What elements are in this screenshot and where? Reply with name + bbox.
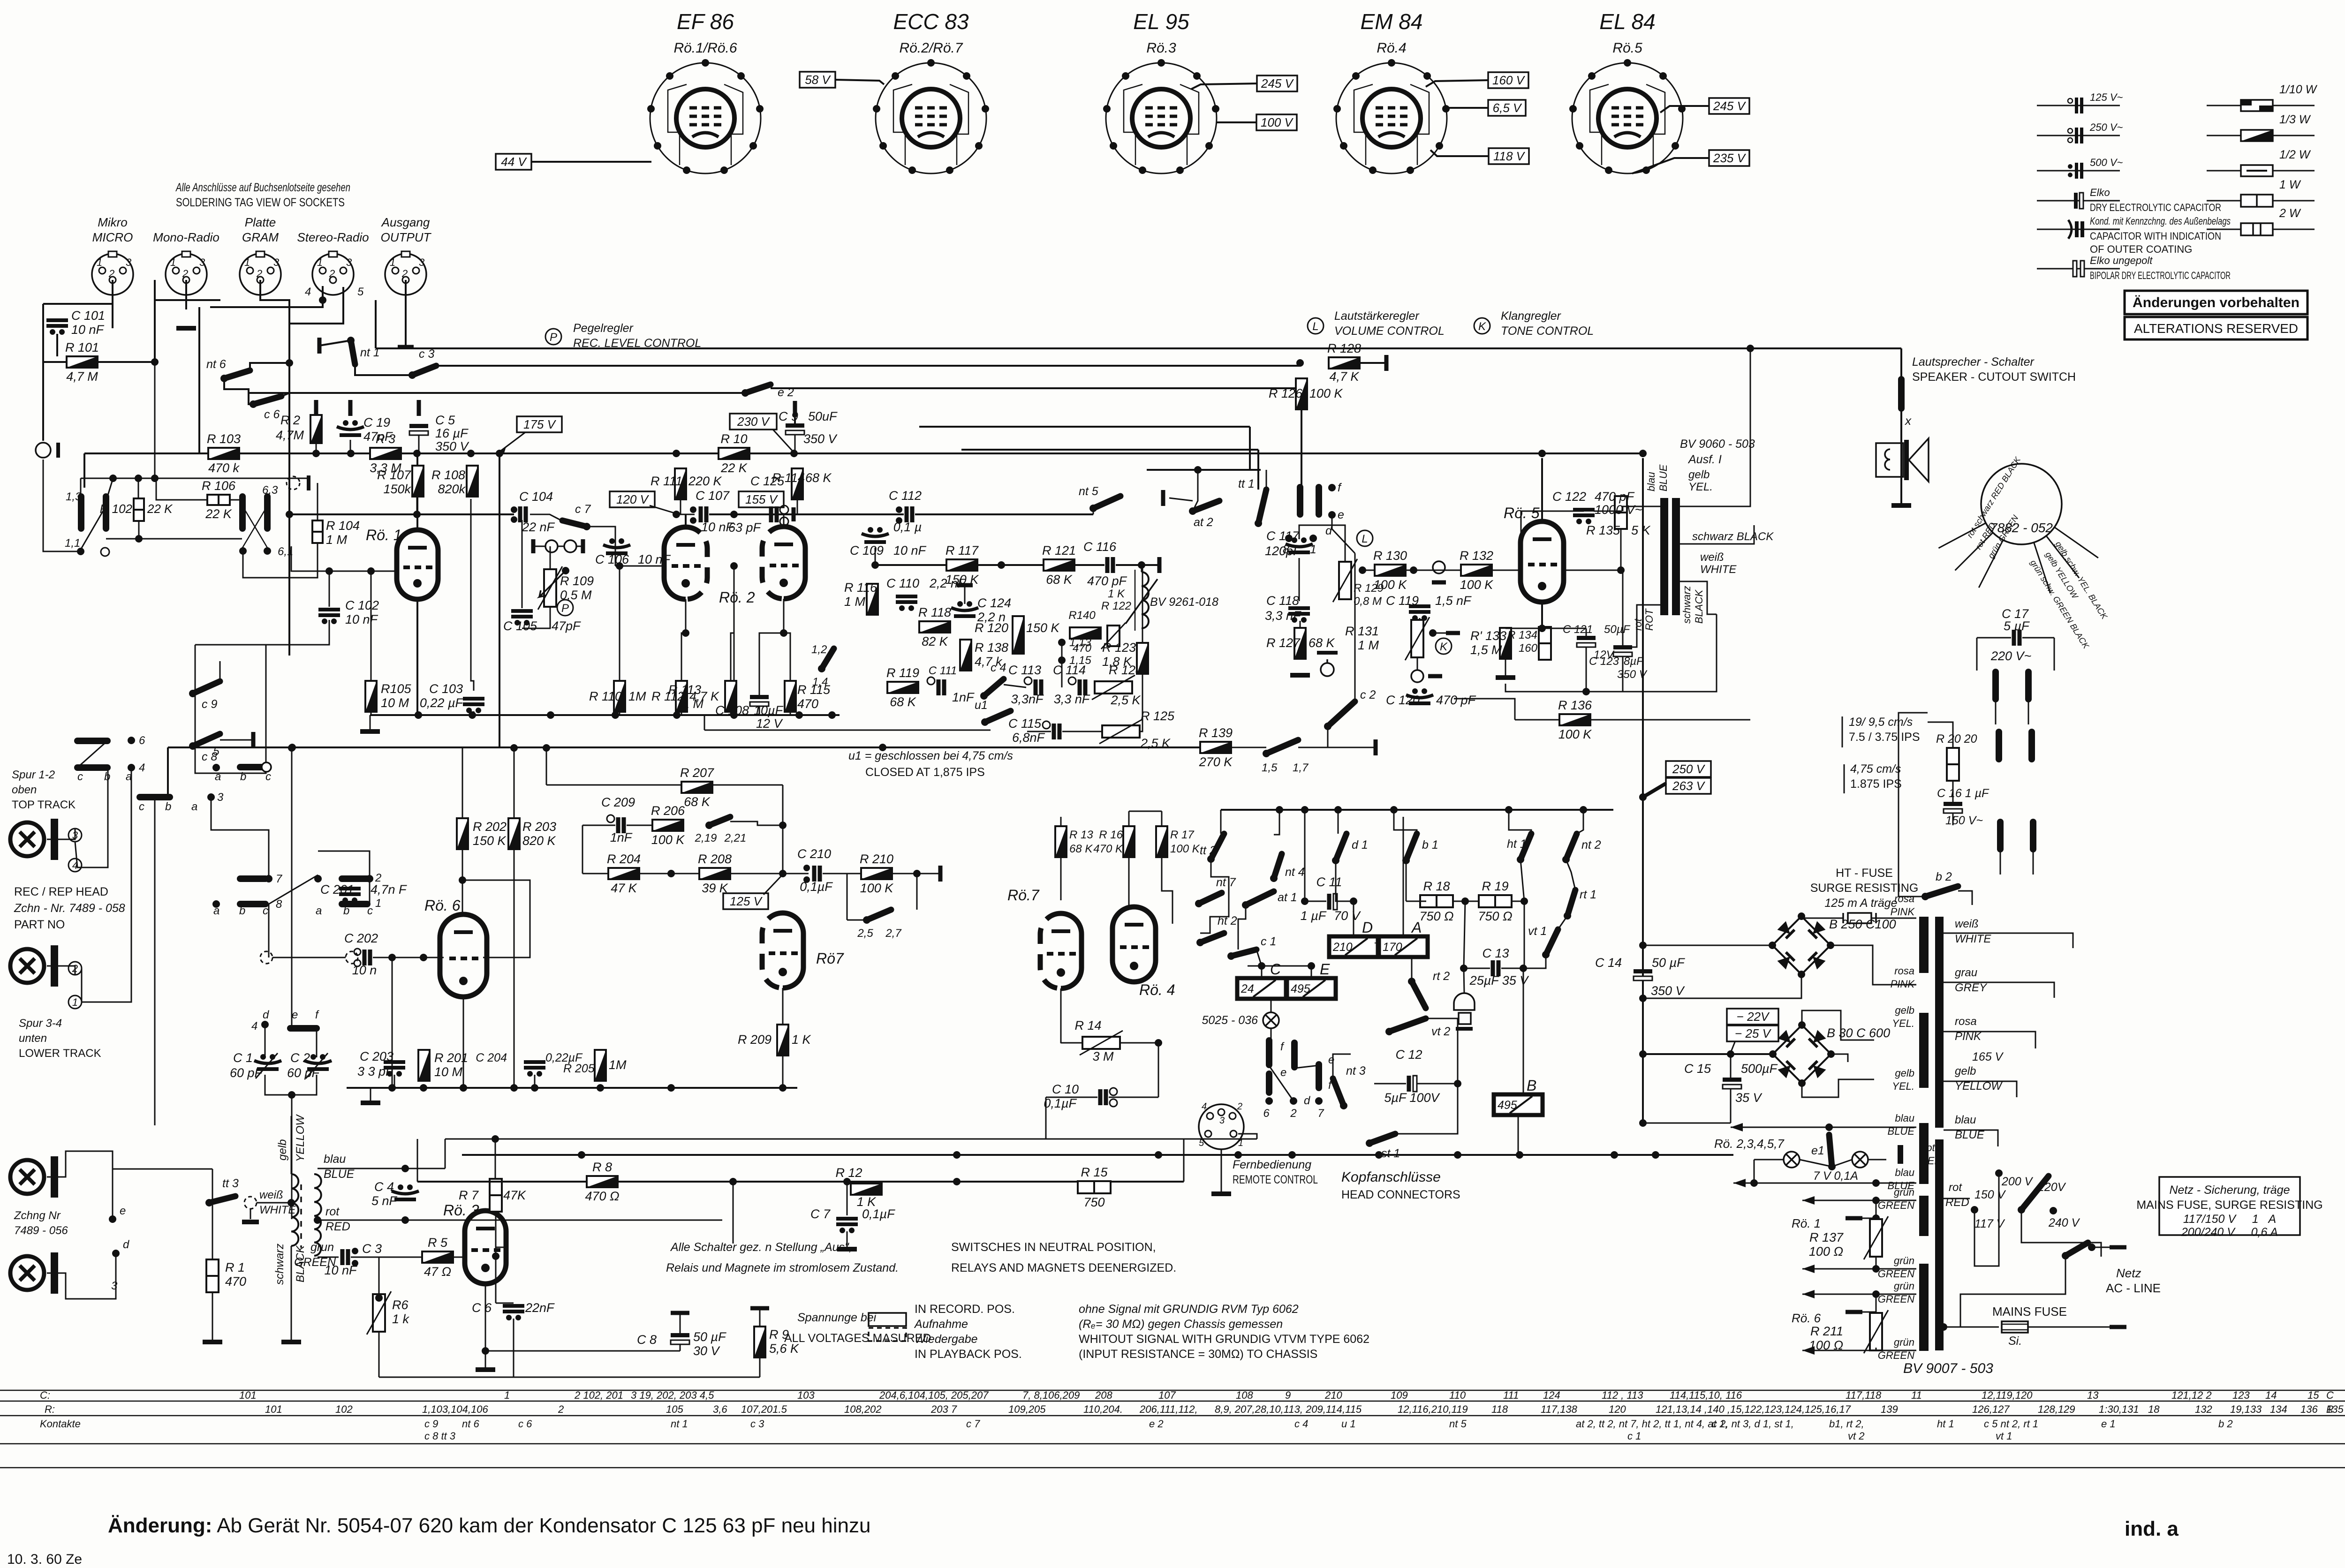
service block wire gelb schw. [2054, 527, 2098, 558]
wire speaker drop [1900, 348, 1902, 379]
capacitor C19 [337, 420, 364, 435]
svg-text:Platte: Platte [245, 215, 276, 229]
wire R207 right down [782, 785, 784, 874]
svg-text:EM 84: EM 84 [1361, 9, 1423, 34]
svg-text:REMOTE CONTROL: REMOTE CONTROL [1233, 1173, 1318, 1186]
junction head bus [1234, 1151, 1242, 1159]
wire 58V to ECC83 [835, 80, 884, 84]
junction R130 right [1410, 566, 1417, 574]
wire Ro7b down [1060, 988, 1062, 1043]
wire 1557 left [704, 715, 705, 730]
matrix bar r5 [240, 875, 265, 882]
svg-text:e 1: e 1 [2101, 1418, 2116, 1430]
svg-text:1/10 W: 1/10 W [2279, 83, 2318, 96]
svg-text:R 113: R 113 [668, 683, 701, 697]
svg-text:124: 124 [1543, 1389, 1560, 1401]
svg-text:BLACK: BLACK [1693, 589, 1705, 624]
wire blau tap [318, 1168, 445, 1169]
svg-text:120: 120 [1609, 1403, 1626, 1415]
capacitor C115 [1054, 724, 1059, 739]
junction rot left [314, 1216, 321, 1224]
wire C9 top [794, 412, 796, 423]
svg-text:204,6,104,105, 205,207: 204,6,104,105, 205,207 [879, 1389, 989, 1401]
svg-text:3: 3 [1219, 1116, 1225, 1126]
legend electrolytic capacitor [2074, 193, 2083, 209]
junction R19 right [1520, 897, 1528, 905]
svg-text:114,115,10, 116: 114,115,10, 116 [1670, 1389, 1742, 1401]
capacitor C121 [1577, 636, 1596, 647]
wire C108 top [759, 633, 784, 695]
svg-text:25µF 35 V: 25µF 35 V [1469, 973, 1530, 988]
wire C103 down [473, 711, 475, 715]
svg-text:C 4: C 4 [374, 1180, 394, 1194]
svg-text:gelb: gelb [1955, 1065, 1976, 1078]
svg-text:100 K: 100 K [860, 881, 894, 895]
terminal R131b [1428, 674, 1442, 678]
terminal mains b [2110, 1325, 2126, 1329]
coil BV9261-018 [1142, 572, 1149, 628]
svg-text:126,127: 126,127 [1972, 1403, 2010, 1415]
terminal R137 [1846, 1216, 1862, 1221]
junction R8 bus c [953, 1178, 961, 1185]
wire rt1 down [1558, 916, 1567, 929]
wire lamp mid2 [1832, 1160, 1852, 1167]
service block wire rot [1955, 533, 1993, 571]
voltage box 155V [739, 491, 784, 507]
svg-text:vt 2: vt 2 [1431, 1025, 1450, 1038]
terminal bus1594 [1374, 739, 1378, 755]
svg-text:vt 2: vt 2 [1848, 1430, 1864, 1442]
svg-text:TONE CONTROL: TONE CONTROL [1501, 324, 1594, 338]
svg-text:grau: grau [1955, 966, 1977, 979]
svg-text:R 137: R 137 [1809, 1230, 1844, 1244]
svg-text:at 1: at 1 [1278, 891, 1297, 904]
svg-text:1 M: 1 M [326, 533, 348, 547]
wire R102 bot [138, 521, 140, 539]
svg-text:st 1: st 1 [1381, 1147, 1400, 1160]
junction matrix top [1390, 806, 1398, 814]
svg-text:270 K: 270 K [1199, 755, 1233, 769]
wire trim row2 [558, 546, 564, 547]
svg-text:R 16: R 16 [1099, 829, 1123, 841]
svg-text:Rö.1/Rö.6: Rö.1/Rö.6 [673, 40, 737, 56]
gnd drop stage2 [370, 1088, 371, 1101]
tube Rö.6 [440, 914, 487, 997]
wire C101 down [56, 334, 58, 356]
resistor R15 [1078, 1181, 1111, 1193]
legend capacitor outer coating [2068, 220, 2084, 239]
junction R8 bus b [843, 1178, 851, 1185]
potentiometer R125 [1099, 719, 1142, 744]
wire R7 down [495, 1212, 497, 1256]
wire R107 drop [416, 497, 418, 514]
legend bipolar electrolytic [2073, 261, 2084, 277]
svg-text:R 206: R 206 [651, 804, 685, 818]
svg-text:1 K: 1 K [792, 1033, 811, 1047]
svg-text:3: 3 [111, 1280, 118, 1292]
transformer primary coil [291, 1174, 298, 1246]
svg-text:0,22 µF: 0,22 µF [420, 696, 464, 710]
svg-text:Elko ungepolt: Elko ungepolt [2090, 255, 2153, 266]
svg-text:0,1µF: 0,1µF [1044, 1096, 1077, 1110]
C202 right [373, 957, 444, 958]
svg-text:150 K: 150 K [1026, 621, 1060, 635]
contact field bus low [106, 538, 242, 540]
svg-text:Rö.5: Rö.5 [1612, 40, 1642, 56]
service block wire gelb [2046, 536, 2079, 578]
service contact 1a [1992, 672, 1999, 699]
junction C202 a [388, 954, 396, 961]
fuse HT symbol [1843, 913, 1876, 923]
solenoid symbol [1454, 993, 1475, 1029]
table line 4 [0, 1443, 2345, 1445]
svg-text:R 130: R 130 [1373, 549, 1407, 563]
wire R14 right [1120, 1042, 1158, 1044]
resistor R114 [792, 468, 803, 499]
capacitor C120 [1406, 688, 1433, 703]
svg-text:208: 208 [1095, 1389, 1112, 1401]
Ro6 out wire [462, 880, 530, 957]
svg-text:c 8 tt 3: c 8 tt 3 [424, 1430, 456, 1442]
wire E top [1311, 966, 1312, 978]
svg-text:d: d [123, 1238, 129, 1251]
svg-text:e: e [1280, 1066, 1286, 1079]
wire C121 bot [1586, 647, 1587, 692]
bus y1594 [168, 746, 1201, 748]
wire R105 top [371, 571, 372, 681]
wire R131 term [1433, 633, 1447, 634]
svg-text:R 10: R 10 [720, 432, 747, 446]
svg-text:Ausgang: Ausgang [381, 215, 430, 229]
wire C11 right [1338, 901, 1354, 902]
wire Ro5 top bus [1521, 511, 1584, 570]
lamp 5025-036 [1263, 1012, 1279, 1028]
junction stage2 rail [420, 1084, 427, 1092]
svg-text:101: 101 [239, 1389, 257, 1401]
svg-text:19,133: 19,133 [2230, 1403, 2262, 1415]
svg-text:C 3: C 3 [362, 1242, 382, 1256]
svg-text:220 K: 220 K [688, 474, 722, 488]
matrix bar r3 [140, 794, 170, 800]
svg-text:Rö. 2: Rö. 2 [719, 589, 755, 606]
svg-text:rt 2: rt 2 [1433, 970, 1450, 983]
junction head bus [1611, 1151, 1618, 1159]
transformer BV9060 core left [1660, 498, 1680, 615]
svg-text:C 119: C 119 [1386, 594, 1419, 608]
arrowhead 175V [500, 447, 506, 453]
wire C15 rail [1643, 1123, 1731, 1124]
head rec/rep top [10, 819, 58, 860]
stage2 ground rail [347, 1087, 797, 1089]
svg-text:OUTPUT: OUTPUT [381, 230, 432, 244]
wire R106 right [230, 499, 242, 501]
junction bus3 [496, 450, 503, 457]
mains fuse info box [2136, 1177, 2322, 1239]
capacitor C12 style [1413, 1076, 1417, 1092]
switch nt2 [1562, 834, 1577, 863]
circled 2 [68, 962, 82, 975]
service contact 3b [2030, 822, 2036, 849]
svg-text:Mono-Radio: Mono-Radio [153, 230, 219, 244]
contact field bus top [81, 478, 308, 479]
c8 col [268, 904, 270, 957]
resistor R17 [1156, 826, 1167, 857]
capacitor C17 [2014, 630, 2020, 646]
wire c8 to term [220, 739, 253, 741]
resistor R134 [1539, 627, 1551, 660]
wire R137 lead [1854, 1218, 1876, 1219]
switch diag [269, 875, 318, 904]
svg-text:1 M: 1 M [682, 697, 704, 711]
wire tap red [1944, 1198, 1970, 1199]
contact bar 13b [103, 497, 109, 528]
switch b1 [1402, 834, 1417, 864]
resistor R115 [785, 681, 796, 712]
junction C12 right [1454, 1080, 1461, 1087]
resistor R19 [1479, 895, 1512, 907]
rail Ro3 bottom [379, 1377, 760, 1378]
svg-text:13: 13 [2087, 1389, 2099, 1401]
capacitor C15 [1723, 1078, 1741, 1089]
wire bridge2 top [1802, 1010, 1874, 1040]
svg-text:10. 3. 60 Ze: 10. 3. 60 Ze [7, 1552, 82, 1567]
svg-text:125 m A träge: 125 m A träge [1824, 897, 1897, 910]
contact bar t3 [1316, 1064, 1322, 1088]
svg-text:grün: grün [1894, 1336, 1914, 1348]
wire C17 left [1977, 637, 2011, 639]
contact 1,13 [1058, 639, 1066, 646]
svg-text:6: 6 [1263, 1107, 1270, 1120]
svg-text:R 210: R 210 [860, 852, 893, 866]
wire remote gnd [1221, 1149, 1222, 1192]
power transformer core right [1935, 917, 1944, 1350]
svg-text:68 K: 68 K [1046, 573, 1073, 587]
bus B6 [1147, 469, 1261, 471]
svg-text:136: 136 [2300, 1403, 2318, 1415]
wire 175V arrow [500, 432, 525, 451]
svg-text:BLUE: BLUE [324, 1168, 355, 1181]
svg-text:3: 3 [273, 256, 280, 268]
circled 4 [68, 859, 82, 872]
row R117 [875, 564, 946, 566]
svg-text:R 14: R 14 [1074, 1018, 1101, 1033]
svg-text:C:: C: [40, 1389, 50, 1401]
svg-text:rot: rot [1949, 1181, 1962, 1194]
wire 113 115 [1061, 642, 1063, 687]
terminal C19 top [348, 400, 353, 416]
svg-text:3,6: 3,6 [713, 1403, 727, 1415]
wire mains sw lead [2092, 1247, 2110, 1248]
svg-text:1: 1 [244, 256, 250, 268]
open circle 2 [564, 540, 576, 552]
contact bar t2 [1291, 1043, 1298, 1067]
wire Ro3 cath [485, 1284, 486, 1368]
legend resistor 1W lead [2207, 200, 2315, 202]
junction R117b [998, 561, 1005, 569]
svg-text:c 2: c 2 [1360, 688, 1376, 701]
bus remote top [445, 1138, 1257, 1140]
svg-text:Rö. 4: Rö. 4 [1139, 981, 1175, 998]
wire R18 R19b [1453, 901, 1479, 902]
wire Ro2b down [783, 599, 785, 633]
Ro6 bottom [463, 997, 464, 1088]
svg-text:OF OUTER COATING: OF OUTER COATING [2090, 243, 2192, 255]
svg-text:K: K [1440, 641, 1448, 653]
svg-text:C 204: C 204 [476, 1051, 507, 1064]
contact e dot [1328, 511, 1336, 519]
junction R203 top [510, 744, 518, 752]
svg-text:GREEN: GREEN [1878, 1293, 1914, 1305]
svg-text:1: 1 [170, 256, 176, 268]
svg-text:R 116: R 116 [844, 580, 877, 595]
junction center vert [730, 562, 738, 570]
bus matrix top [1221, 809, 1613, 811]
junction trafo prim [287, 1199, 295, 1206]
svg-text:GREEN: GREEN [1878, 1268, 1914, 1280]
svg-text:245 V: 245 V [1713, 99, 1747, 113]
svg-text:470 pF: 470 pF [1595, 490, 1635, 504]
svg-text:C 202: C 202 [344, 931, 378, 945]
junction matrix top [1276, 806, 1283, 814]
capacitor C203 [384, 1062, 405, 1077]
wire Ro5 anode [1541, 458, 1543, 521]
capacitor C209 dot [607, 815, 614, 822]
svg-text:DRY ELECTROLYTIC CAPACITOR: DRY ELECTROLYTIC CAPACITOR [2090, 202, 2221, 213]
svg-text:470 pF: 470 pF [1087, 574, 1127, 588]
voltage box 160V at EM84 [1488, 72, 1528, 88]
wire rot tap [318, 1220, 722, 1221]
wire C117 top [1299, 525, 1345, 553]
resistor R106 [207, 495, 230, 505]
svg-text:c 1: c 1 [1627, 1430, 1641, 1442]
svg-text:1:30,131: 1:30,131 [2099, 1403, 2139, 1415]
svg-text:50uF: 50uF [808, 409, 838, 423]
svg-text:1: 1 [317, 256, 323, 268]
resistor R18 [1420, 895, 1453, 907]
svg-text:R 103: R 103 [207, 432, 241, 446]
capacitor C8 [671, 1333, 689, 1344]
switch nt6 [220, 370, 250, 382]
svg-text:Lautsprecher - Schalter: Lautsprecher - Schalter [1912, 355, 2035, 369]
svg-text:58 V: 58 V [805, 73, 831, 87]
svg-text:250 V: 250 V [1672, 762, 1706, 776]
tube socket EM 84 (Rö.4) [1333, 59, 1450, 174]
svg-text:170: 170 [1383, 941, 1402, 954]
junction C13 left [1460, 965, 1468, 972]
junction R6 top [375, 1294, 383, 1302]
potentiometer R122 [1101, 623, 1126, 649]
capacitor C108 [750, 695, 769, 706]
svg-text:blau: blau [324, 1153, 346, 1166]
matrix bar r6 [240, 901, 265, 907]
svg-text:2,21: 2,21 [724, 832, 747, 844]
contact bar f1 [1297, 487, 1303, 514]
R203 top [514, 748, 515, 818]
svg-text:12,119,120: 12,119,120 [1982, 1389, 2033, 1401]
svg-text:206,111,112,: 206,111,112, [1139, 1403, 1198, 1415]
svg-text:10 nF: 10 nF [324, 1263, 357, 1277]
junction stage2 rail [388, 1084, 396, 1092]
service dashes 1b [2028, 701, 2029, 724]
svg-text:MAINS FUSE: MAINS FUSE [1992, 1304, 2067, 1319]
potentiometer R129 [1333, 559, 1357, 602]
svg-text:22 K: 22 K [147, 502, 173, 516]
svg-text:R 1: R 1 [225, 1260, 245, 1274]
ground stage2 [361, 1101, 380, 1105]
svg-text:68 K: 68 K [1069, 843, 1093, 855]
capacitor C111 [938, 679, 944, 695]
svg-text:1M: 1M [628, 689, 646, 703]
wire tap yellow [1944, 1081, 2017, 1097]
wire b2 left [1899, 713, 1928, 897]
contact a6 dot [314, 875, 322, 882]
switch 1,2-1,4 [818, 648, 834, 672]
resistor R135 [1615, 496, 1627, 529]
svg-text:grün: grün [1894, 1186, 1914, 1198]
svg-text:vt 1: vt 1 [1996, 1430, 2012, 1442]
svg-text:Stereo-Radio: Stereo-Radio [297, 230, 369, 244]
junction B1 x3732 [1747, 345, 1754, 352]
svg-text:TOP TRACK: TOP TRACK [12, 799, 76, 811]
wire C209 row2 [627, 825, 652, 826]
svg-text:120 V: 120 V [616, 492, 650, 506]
svg-text:10µF: 10µF [754, 703, 784, 717]
svg-text:(Rₑ= 30 MΩ) gegen Chassis geme: (Rₑ= 30 MΩ) gegen Chassis gemessen [1079, 1318, 1283, 1331]
wire left edge down [42, 304, 44, 441]
junction R2 [312, 450, 320, 457]
resistor R112 [676, 681, 687, 712]
wire nt2 up [1577, 810, 1583, 834]
svg-text:155 V: 155 V [745, 492, 779, 506]
svg-text:150 K: 150 K [473, 834, 507, 848]
head3 wire [47, 1151, 113, 1219]
switch vt1 [1542, 929, 1558, 958]
wire lamp row [1754, 1159, 1784, 1161]
svg-text:2,19: 2,19 [695, 832, 717, 844]
wire trafo schwarz [1680, 525, 1754, 544]
wire Ro2a anode [685, 514, 687, 527]
svg-text:22 K: 22 K [720, 461, 748, 475]
wire bus2520 left [417, 1139, 418, 1182]
svg-text:C 15: C 15 [1684, 1062, 1711, 1076]
svg-text:1: 1 [97, 256, 102, 268]
svg-text:x: x [1904, 414, 1912, 428]
svg-text:107,201.5: 107,201.5 [741, 1403, 787, 1415]
svg-text:nt 2: nt 2 [1581, 838, 1601, 852]
svg-text:1/2 W: 1/2 W [2279, 148, 2311, 161]
resistor R111 [675, 468, 686, 499]
svg-text:c: c [367, 905, 373, 917]
svg-text:18: 18 [2148, 1403, 2160, 1415]
bus B3 right [771, 387, 1302, 389]
capacitor C119 [1409, 606, 1430, 621]
svg-text:7 V 0,1A: 7 V 0,1A [1813, 1169, 1858, 1183]
wire R20 col [1928, 722, 1953, 748]
svg-text:150 V~: 150 V~ [1945, 814, 1983, 827]
wire B6 drop [1193, 470, 1198, 511]
svg-text:210: 210 [1332, 941, 1353, 954]
wire at2 lead [1169, 498, 1193, 501]
capacitor C1 arrow [256, 1053, 278, 1078]
junction matrix top [1334, 806, 1342, 814]
wire nt4 up [1274, 810, 1279, 835]
wire rail left corner [83, 453, 85, 488]
switch nt7 [1195, 893, 1222, 907]
svg-text:8,9, 207,28,10,113, 209,114,11: 8,9, 207,28,10,113, 209,114,115 [1215, 1403, 1362, 1415]
terminal ausgang [398, 345, 414, 349]
svg-text:C 10: C 10 [1052, 1082, 1079, 1096]
svg-text:1000 V~: 1000 V~ [1595, 503, 1642, 517]
